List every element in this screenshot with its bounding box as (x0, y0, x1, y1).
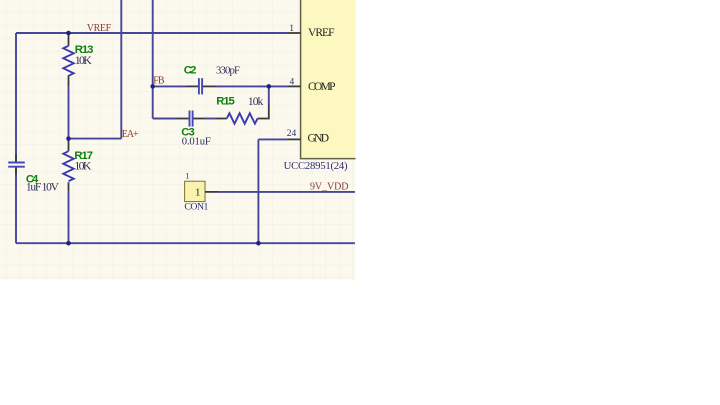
svg-text:9V_VDD: 9V_VDD (310, 181, 349, 192)
svg-text:4: 4 (289, 78, 294, 88)
svg-text:10K: 10K (74, 159, 91, 173)
svg-text:10K: 10K (75, 53, 92, 67)
svg-text:GND: GND (308, 133, 330, 145)
svg-text:10k: 10k (248, 96, 264, 108)
svg-text:24: 24 (287, 129, 297, 139)
svg-text:FB: FB (153, 76, 165, 87)
svg-text:1: 1 (289, 24, 294, 34)
svg-text:COMP: COMP (308, 81, 336, 93)
svg-text:C2: C2 (184, 65, 197, 77)
svg-text:CON1: CON1 (184, 202, 208, 213)
svg-text:1uF 10V: 1uF 10V (26, 182, 60, 194)
svg-text:0.01uF: 0.01uF (182, 135, 211, 147)
svg-text:R15: R15 (216, 96, 235, 108)
svg-text:UCC28951(24): UCC28951(24) (284, 160, 348, 172)
svg-text:1: 1 (185, 171, 189, 181)
svg-text:VREF: VREF (308, 27, 335, 39)
svg-text:EA+: EA+ (122, 129, 139, 140)
svg-text:330pF: 330pF (216, 65, 240, 77)
svg-text:VREF: VREF (87, 23, 112, 34)
svg-text:1: 1 (195, 186, 201, 198)
